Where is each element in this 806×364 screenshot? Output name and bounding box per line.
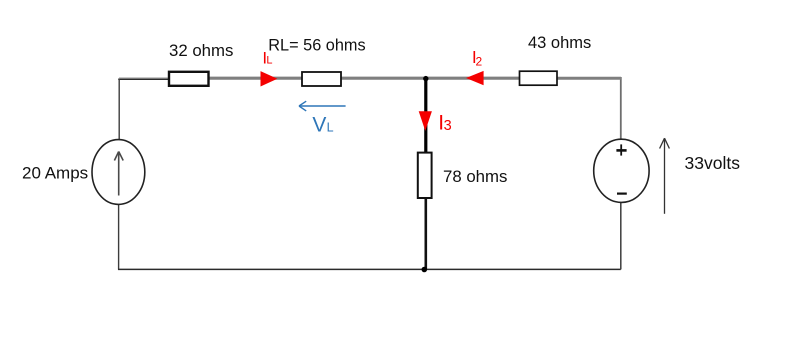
voltage source V1 ellipse: [594, 139, 649, 202]
wire left vertical upper: [118, 79, 120, 141]
resistor R1 32 ohms: [169, 72, 209, 86]
svg-text:V: V: [312, 113, 326, 136]
label I3 red: [438, 111, 451, 134]
resistor 78 ohms: [418, 153, 432, 198]
label IL red: [262, 49, 272, 68]
wire bottom: [118, 268, 621, 270]
wire top-left segment: [118, 78, 170, 80]
wire top-left light gray overlay: [119, 77, 170, 79]
wire right vertical upper: [620, 77, 622, 140]
resistor 43 ohms: [520, 71, 558, 85]
svg-text:32 ohms: 32 ohms: [169, 41, 233, 60]
label I2 red: [472, 47, 483, 68]
arrow I2 current red: [466, 71, 484, 85]
svg-text:L: L: [266, 55, 272, 67]
arrow I3 current red: [419, 111, 432, 131]
current source arrow: [114, 152, 123, 196]
svg-text:L: L: [327, 121, 334, 135]
wire gray segment right of 43-ohm resistor: [556, 77, 621, 80]
voltage source minus sign: [617, 193, 627, 195]
wire middle vertical lower: [424, 198, 427, 270]
wire right vertical lower: [620, 202, 622, 269]
voltage source plus sign: [616, 144, 626, 155]
wire middle vertical upper: [424, 78, 427, 154]
wire gray segment between R1 and RL: [208, 77, 304, 80]
arrow IL current red: [261, 71, 278, 86]
resistor RL 56 ohms: [302, 72, 341, 86]
svg-text:RL= 56 ohms: RL= 56 ohms: [268, 37, 365, 55]
wire left vertical lower: [118, 204, 120, 270]
svg-text:33volts: 33volts: [685, 153, 741, 173]
svg-text:43 ohms: 43 ohms: [528, 34, 591, 52]
current source I1 ellipse: [92, 140, 145, 205]
label VL blue: [312, 113, 333, 136]
svg-text:3: 3: [444, 118, 452, 134]
arrow 33volts reference: [660, 138, 670, 214]
svg-text:2: 2: [476, 54, 483, 68]
arrow VL blue: [299, 101, 346, 111]
node bottom junction dot: [422, 267, 428, 273]
wire gray segment between RL and 43-ohm resistor: [340, 77, 521, 80]
svg-text:20 Amps: 20 Amps: [22, 164, 88, 183]
svg-text:78 ohms: 78 ohms: [443, 167, 507, 186]
node top junction dot: [423, 76, 428, 81]
